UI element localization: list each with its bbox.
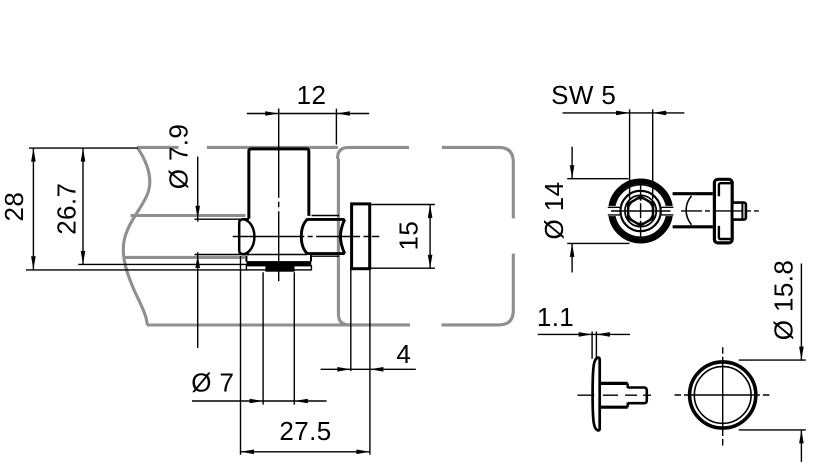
- stub tip: [628, 388, 647, 404]
- svg-text:Ø 15.8: Ø 15.8: [769, 260, 799, 340]
- dim 15: [371, 205, 435, 269]
- 27.5 arrows: [241, 450, 255, 455]
- MAIN VIEW BLACK PART: [195, 149, 370, 270]
- dim dia7: [192, 400, 327, 402]
- collar bar: [265, 266, 294, 272]
- svg-text:28: 28: [0, 192, 29, 222]
- stub inner line: [741, 203, 743, 220]
- stub: [732, 203, 746, 220]
- dia7.9 arrows: [195, 206, 200, 220]
- center lines main view: [233, 109, 380, 282]
- dim 4: [321, 368, 416, 370]
- svg-text:12: 12: [297, 80, 327, 110]
- part extension lines below: [240, 256, 242, 455]
- dim 28 lines: [29, 147, 138, 149]
- DIMENSIONS main view: [26, 109, 435, 455]
- shaft core thick lines: [307, 219, 345, 253]
- panel cutout rounded rect: [338, 147, 410, 158]
- svg-text:15: 15: [394, 221, 424, 251]
- dim 26.7 lines: [78, 263, 246, 265]
- 12 arrows: [265, 111, 279, 116]
- PANEL (gray): [123, 147, 514, 325]
- knob disc: [714, 179, 732, 243]
- shaft thin silhouette lines: [312, 216, 340, 257]
- dim 12: [247, 113, 369, 115]
- svg-text:4: 4: [396, 339, 411, 369]
- shaft arc: [686, 196, 691, 225]
- dim dia7.9 line: [197, 157, 199, 348]
- panel break wavy line: [123, 148, 150, 325]
- circle around hex: [625, 195, 656, 226]
- centerline: [578, 394, 652, 396]
- knob inner steps: [719, 183, 731, 196]
- arrows main view: [31, 111, 432, 454]
- cam lens: [239, 219, 249, 254]
- panel bottom edge: [147, 323, 410, 326]
- BOTTOM RIGHT circle view: [675, 347, 770, 445]
- stub lines: [601, 383, 628, 407]
- svg-text:27.5: 27.5: [279, 416, 331, 446]
- bore line lower: [195, 254, 308, 256]
- cone tip chevron: [340, 219, 344, 253]
- TEXTS main view: [0, 80, 423, 446]
- dim 27.5: [241, 451, 370, 453]
- 4 arrows: [337, 367, 351, 372]
- clamp plate 4x15: [352, 204, 370, 269]
- dia7 arrows: [250, 399, 264, 404]
- hex socket: [628, 197, 653, 226]
- svg-text:SW 5: SW 5: [551, 80, 616, 110]
- 26.7 arrows: [81, 148, 86, 162]
- shaft concave fillet arc: [301, 219, 307, 253]
- FRONT VIEW top right: [611, 181, 671, 241]
- center cross: [640, 184, 642, 238]
- flange slab: [246, 261, 311, 266]
- flange end connectors: [246, 255, 311, 262]
- dia 15.8 dim: [739, 264, 806, 462]
- KNOB side view: [673, 179, 759, 243]
- svg-text:Ø 7: Ø 7: [191, 368, 234, 398]
- svg-text:1.1: 1.1: [537, 302, 574, 332]
- 15 arrows: [428, 205, 433, 219]
- panel hole edge lower: [123, 256, 245, 259]
- SW5 + dia14 dims: [563, 109, 685, 272]
- BOTTOM RIGHT small side view: [578, 358, 652, 431]
- svg-text:26.7: 26.7: [51, 183, 81, 235]
- 1.1 dim: [538, 332, 630, 359]
- svg-text:Ø 7.9: Ø 7.9: [164, 124, 194, 190]
- 28 arrows: [31, 148, 36, 162]
- knob centerline: [681, 210, 759, 212]
- bore line upper (ext for dia 7.9): [195, 218, 242, 220]
- panel top edge: [137, 146, 338, 149]
- vertical centerline of part: [278, 109, 280, 282]
- svg-text:Ø 14: Ø 14: [539, 182, 569, 240]
- collar ring: [611, 181, 671, 241]
- horizontal centerline of part: [233, 236, 380, 238]
- barrel circle: [620, 191, 660, 231]
- body cap outline: [249, 149, 309, 219]
- panel hole edge upper: [131, 214, 246, 217]
- disc sliver: [593, 358, 600, 431]
- circle just inside ring: [614, 185, 667, 238]
- inscribed circle: [628, 199, 653, 224]
- washer thin rect: [246, 266, 311, 270]
- slots: [607, 206, 675, 216]
- shaft: [673, 194, 713, 227]
